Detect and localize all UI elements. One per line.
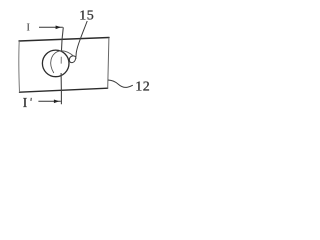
leader line from 15 with curl — [69, 21, 87, 63]
plate 12 bottom edge — [20, 88, 108, 92]
arrow I top — [39, 26, 63, 28]
plate 12 top edge — [19, 38, 109, 42]
svg-text:I: I — [23, 96, 28, 111]
leader curl sweeping tail — [51, 51, 73, 73]
arrow I' bottom — [38, 100, 60, 102]
plate 12 right edge — [108, 38, 109, 89]
section line upper segment — [61, 27, 63, 52]
section line dash inside circle — [60, 57, 62, 64]
svg-text:I: I — [26, 22, 30, 34]
svg-text:12: 12 — [135, 80, 150, 95]
hole circle — [42, 50, 69, 77]
section line lower segment — [60, 73, 62, 104]
leader line to 12 — [108, 80, 133, 87]
prime mark of I' — [30, 98, 32, 101]
plate 12 left edge — [18, 41, 21, 92]
